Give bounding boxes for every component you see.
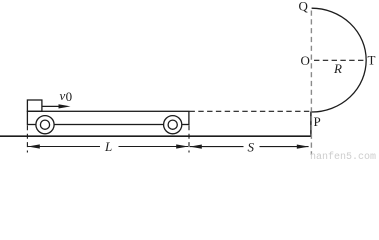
svg-text:T: T bbox=[368, 52, 376, 67]
svg-text:nanfen5.com: nanfen5.com bbox=[310, 151, 376, 159]
svg-text:Q: Q bbox=[299, 0, 309, 14]
svg-text:P: P bbox=[314, 114, 321, 129]
svg-text:R: R bbox=[333, 61, 342, 76]
dashed extension line at cart left bbox=[26, 125, 28, 152]
dashed extension line at cart right bbox=[188, 125, 190, 152]
dashed radius O-T bbox=[314, 59, 364, 61]
L dimension line with arrows bbox=[28, 144, 188, 148]
v0 arrow bbox=[42, 104, 71, 108]
svg-text:L: L bbox=[104, 139, 112, 154]
semicircular track arc Q-T-P bbox=[312, 8, 367, 112]
cart body bbox=[27, 111, 189, 124]
svg-text:O: O bbox=[301, 53, 310, 68]
ground line bbox=[0, 135, 311, 137]
right wheel bbox=[164, 116, 182, 134]
svg-text:v: v bbox=[60, 88, 66, 103]
svg-text:S: S bbox=[248, 139, 255, 154]
svg-text:0: 0 bbox=[66, 89, 73, 104]
wall at step P bbox=[310, 112, 312, 137]
dashed trajectory line cart-top to P bbox=[190, 110, 311, 112]
block on cart bbox=[27, 100, 42, 111]
dashed vertical diameter line Q-O-P bbox=[310, 11, 312, 156]
S dimension line with arrows bbox=[190, 145, 309, 149]
left wheel bbox=[36, 116, 54, 134]
